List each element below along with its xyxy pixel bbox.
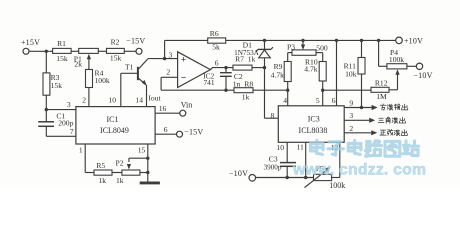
IC block IC3 ICL8038: [278, 106, 344, 143]
svg-text:15: 15: [138, 145, 146, 154]
label triangle wave output: [378, 117, 405, 123]
wire P3 left to R9: [288, 53, 292, 62]
svg-text:IC1: IC1: [107, 115, 119, 124]
svg-text:1N753A: 1N753A: [234, 49, 260, 57]
arrow triangle wave: [369, 118, 375, 123]
wire R7 to zener node: [252, 67, 265, 69]
watermark line2 www.cndzz.com: [292, 162, 426, 179]
svg-text:1k: 1k: [116, 176, 124, 185]
terminal -10V right: [413, 63, 432, 80]
wire IC3 pin2 output: [344, 124, 371, 133]
svg-text:2: 2: [166, 67, 170, 76]
wiper arrow P3: [301, 40, 305, 50]
svg-text:R12: R12: [375, 78, 388, 87]
svg-text:100k: 100k: [389, 55, 404, 64]
wire R3 top lead: [45, 51, 47, 73]
wire T1 collector to op-amp: [148, 50, 178, 59]
label sine wave output: [380, 130, 407, 136]
svg-text:741: 741: [203, 78, 214, 87]
svg-text:4: 4: [283, 96, 287, 105]
svg-text:100k: 100k: [95, 76, 110, 85]
svg-text:P2: P2: [115, 159, 123, 168]
svg-text:R8: R8: [244, 80, 253, 89]
svg-text:6: 6: [215, 58, 219, 67]
potentiometer P1 2k: [74, 48, 99, 68]
resistor R6 5k: [208, 29, 226, 52]
junction dot R10-R12: [321, 89, 324, 92]
junction dot R8-R9-pin4: [286, 89, 289, 92]
svg-text:11: 11: [297, 142, 305, 151]
resistor R8 1k: [234, 80, 253, 102]
resistor R10 4.7k: [304, 57, 326, 81]
wire feedback bottom: [161, 89, 234, 91]
wire P5 to pin12: [331, 142, 340, 177]
junction dot R3 top: [45, 50, 48, 53]
wire top rail: [226, 39, 396, 41]
watermark line1 dianzi dianlu tuzhan: [311, 140, 419, 156]
svg-text:3: 3: [349, 111, 353, 120]
terminal -10V bottom: [229, 169, 256, 181]
wire IC1 pin6 to -15V: [155, 125, 176, 134]
wire node to IC1 pin 3: [46, 100, 76, 109]
wire pin10 to T1 base: [109, 73, 137, 106]
terminal -15V top: [126, 37, 145, 55]
potentiometer P4 100k: [387, 48, 407, 69]
junction dot pin6 rail: [335, 39, 338, 42]
svg-text:6: 6: [332, 96, 336, 105]
label op-amp pin2: [166, 67, 170, 76]
svg-text:1k: 1k: [99, 176, 107, 185]
wire R11 down to pin9 line: [361, 74, 363, 108]
potentiometer P2 1k: [115, 159, 139, 185]
svg-text:14: 14: [135, 96, 143, 105]
svg-text:P3: P3: [287, 42, 295, 51]
junction dot R6 branch: [163, 57, 166, 60]
svg-text:−10V: −10V: [413, 71, 432, 80]
wire IC1 pin15 down: [138, 144, 148, 182]
svg-text:R5: R5: [96, 161, 105, 170]
resistor R4 100k: [86, 69, 110, 88]
svg-text:R6: R6: [210, 29, 219, 38]
resistor R1 15k: [53, 39, 72, 63]
svg-text:3: 3: [169, 50, 173, 59]
svg-text:IC3: IC3: [308, 114, 320, 123]
svg-text:10: 10: [276, 143, 284, 152]
wire P3 right to R10: [316, 53, 323, 62]
capacitor C2 1n: [220, 68, 243, 91]
wire R2 to -15V: [124, 50, 136, 52]
arrow square wave: [372, 105, 378, 110]
svg-text:1k: 1k: [242, 92, 250, 101]
wire R1-P1: [71, 50, 79, 52]
svg-text:−15V: −15V: [184, 128, 203, 137]
wire rail down to P4: [379, 40, 387, 66]
svg-text:15k: 15k: [110, 53, 122, 62]
svg-text:2: 2: [82, 96, 86, 105]
wiper arrow P4: [395, 69, 399, 75]
wire IC1 pin1 down: [79, 144, 94, 173]
wire IC3 pin9 output: [344, 98, 372, 107]
wire R12 right to P4 wiper: [389, 73, 398, 90]
svg-text:−: −: [181, 74, 186, 84]
svg-text:5: 5: [316, 96, 320, 105]
wire R5-P2: [112, 172, 122, 174]
wire R4 to pin 2: [82, 88, 89, 107]
junction dot R11 rail: [360, 39, 363, 42]
svg-text:Iout: Iout: [148, 93, 161, 102]
resistor R12 1M: [371, 78, 389, 101]
svg-text:500: 500: [316, 44, 328, 53]
svg-text:C3: C3: [269, 154, 278, 163]
label square wave output: [380, 104, 408, 110]
junction dot zener-R7: [263, 66, 266, 69]
terminal Vin: [180, 100, 192, 116]
junction dot P3 wiper: [301, 39, 304, 42]
svg-text:2k: 2k: [74, 60, 82, 69]
zener diode D1 1N753A: [234, 40, 273, 67]
wire T1 emitter to pin 14: [135, 85, 146, 107]
wire P2 to pin15 line: [140, 172, 148, 174]
wire C1 to pin 7: [46, 126, 76, 136]
wire op-amp minus input: [161, 77, 178, 90]
svg-text:ICL8038: ICL8038: [299, 126, 328, 135]
wiper arrow P1: [87, 54, 91, 70]
wire op-amp output: [210, 58, 233, 69]
junction dot output-C2: [224, 66, 227, 69]
transistor T1: [125, 59, 148, 86]
svg-text:www. cndzz. com: www. cndzz. com: [292, 162, 426, 179]
svg-text:1M: 1M: [376, 92, 387, 101]
junction dot pin11 bottom: [304, 176, 307, 179]
wire IC1 pin16 to Vin: [155, 104, 180, 113]
svg-text:+: +: [181, 55, 186, 65]
junction dot pin3 node: [45, 108, 48, 111]
wire R10 node to R12: [323, 89, 371, 91]
wire C3 down: [286, 166, 288, 177]
svg-text:4.7k: 4.7k: [271, 70, 284, 79]
svg-text:9: 9: [349, 98, 353, 107]
junction dot C3 bottom: [286, 176, 289, 179]
potentiometer P5 100k: [305, 164, 346, 190]
arrow sine wave: [371, 130, 377, 135]
label Iout: [148, 93, 161, 102]
wire P4 to -10V: [407, 65, 416, 67]
junction dot P2-pin15: [146, 171, 149, 174]
wire R9 to pin4: [283, 82, 287, 106]
terminal +10V: [396, 36, 423, 45]
svg-text:Vin: Vin: [181, 100, 193, 109]
wire +15V to R1: [29, 50, 53, 52]
svg-text:100k: 100k: [329, 181, 345, 188]
wire P1-R2: [98, 50, 106, 52]
wire R3 bottom lead: [45, 95, 47, 109]
svg-text:15k: 15k: [51, 81, 63, 90]
wire IC3 pin10 to C3: [276, 142, 287, 162]
junction dot R11-pin9: [360, 106, 363, 109]
svg-text:2: 2: [349, 124, 353, 133]
svg-text:6: 6: [164, 125, 168, 134]
capacitor C1 200p: [38, 112, 73, 128]
svg-text:10: 10: [109, 96, 117, 105]
potentiometer P3 500: [287, 42, 328, 55]
wire to C1: [45, 110, 47, 122]
terminal +15V: [21, 38, 40, 54]
svg-text:−10V: −10V: [229, 169, 248, 178]
junction dot D1: [263, 39, 266, 42]
IC block IC1 ICL8049: [76, 107, 155, 144]
resistor R9 4.7k: [271, 62, 292, 82]
svg-text:5k: 5k: [212, 43, 220, 52]
resistor R11 10k: [344, 40, 365, 78]
svg-text:+15V: +15V: [21, 38, 40, 47]
svg-text:4.7k: 4.7k: [304, 65, 317, 74]
svg-text:16: 16: [159, 104, 167, 113]
op-amp IC2 741: [178, 52, 215, 88]
terminal -15V bottom: [177, 128, 204, 138]
wire IC3 pin11 down: [297, 142, 306, 177]
svg-text:15k: 15k: [56, 54, 68, 63]
svg-text:ICL8049: ICL8049: [100, 126, 129, 135]
resistor R2 15k: [107, 38, 125, 63]
svg-text:R2: R2: [111, 38, 120, 47]
svg-text:10k: 10k: [345, 70, 357, 79]
svg-text:8: 8: [271, 111, 275, 120]
wire zener node down to pin8: [265, 68, 279, 120]
svg-text:3: 3: [67, 100, 71, 109]
junction dot C2-R8: [224, 89, 227, 92]
svg-text:T1: T1: [125, 62, 134, 71]
wire rail to pin6: [332, 40, 337, 105]
junction dot P4 rail: [377, 39, 380, 42]
resistor R7 1k: [233, 55, 256, 71]
resistor R5 1k: [94, 161, 112, 185]
svg-text:7: 7: [70, 127, 74, 136]
svg-text:3900p: 3900p: [264, 163, 282, 171]
junction dot wiper-pin15: [146, 157, 149, 160]
wire R10 to pin5: [316, 81, 323, 106]
wire R8 to pin4 node: [253, 89, 288, 91]
wire R6 branch up: [165, 40, 208, 58]
resistor R3 15k: [43, 73, 62, 95]
svg-text:−15V: −15V: [126, 37, 145, 46]
svg-text:1: 1: [79, 145, 83, 154]
ground: [140, 181, 160, 184]
wiper P2: [127, 158, 148, 169]
svg-text:+10V: +10V: [404, 36, 423, 45]
capacitor C3 3900p: [264, 154, 296, 171]
wire IC3 pin3 output: [344, 111, 369, 120]
svg-text:R1: R1: [57, 39, 66, 48]
wire -10V to P5: [256, 177, 314, 179]
